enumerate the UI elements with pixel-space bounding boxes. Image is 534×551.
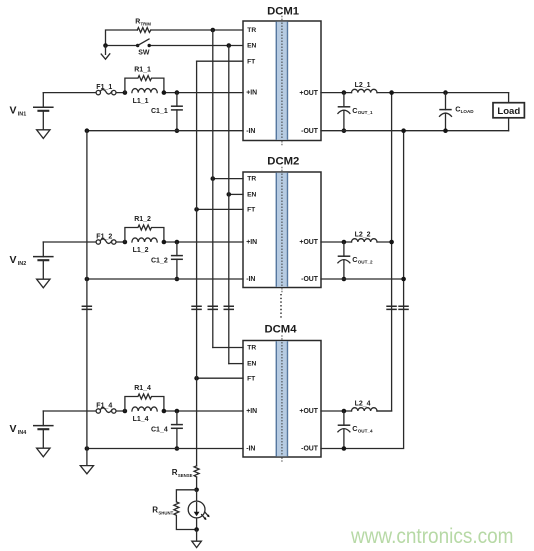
DCM1 isolation barrier bar	[276, 16, 288, 146]
node C1_1 bottom	[175, 128, 180, 133]
watermark	[350, 525, 513, 548]
svg-text:EN: EN	[247, 192, 256, 199]
capacitor C_OUT_4	[338, 411, 373, 449]
resistor R_TRIM	[135, 19, 151, 33]
svg-text:+IN: +IN	[246, 90, 257, 97]
svg-text:L2_2: L2_2	[355, 232, 371, 239]
node FT bus at DCM4	[194, 376, 199, 381]
DCM module DCM1 body	[243, 21, 321, 141]
inductor L2_4	[352, 401, 378, 411]
svg-text:L2_4: L2_4	[355, 401, 371, 408]
wire FT bus vertical	[196, 61, 198, 490]
svg-text:OUT_2: OUT_2	[358, 260, 373, 265]
node TR bus at DCM2	[211, 176, 216, 181]
wire +IN4 row	[43, 410, 243, 412]
svg-text:R: R	[152, 506, 158, 515]
svg-text:F1_1: F1_1	[96, 84, 112, 91]
node C_OUT_2 top	[342, 240, 347, 245]
node shunt bottom junction	[194, 527, 199, 532]
svg-text:IN2: IN2	[18, 261, 26, 267]
ground shunt return	[192, 530, 202, 548]
wire +IN2 row	[43, 241, 243, 243]
svg-text:DCM2: DCM2	[267, 155, 299, 167]
wire break marks left buses	[82, 306, 234, 309]
node C_LOAD bottom	[443, 128, 448, 133]
wire EN row DCM2	[229, 193, 243, 195]
node C_OUT_4 top	[342, 409, 347, 414]
svg-text:V: V	[10, 105, 17, 117]
svg-text:V: V	[10, 423, 17, 435]
node +IN4 right of filter	[162, 409, 167, 414]
svg-text:C1_1: C1_1	[151, 108, 168, 115]
node TR bus junction	[211, 28, 216, 33]
node +OUT bus at DCM2	[389, 240, 394, 245]
wire TR row DCM2	[213, 178, 243, 180]
resistor R_SENSE	[172, 466, 199, 478]
svg-text:+OUT: +OUT	[299, 239, 318, 246]
node EN bus junction	[227, 43, 232, 48]
fuse F1_1	[96, 84, 116, 95]
DCM module DCM4 body	[243, 341, 321, 458]
node R_SENSE bottom junction	[194, 488, 199, 493]
node C_LOAD top	[443, 90, 448, 95]
wire FT row DCM1	[197, 60, 243, 62]
node EN bus at DCM2	[227, 192, 232, 197]
capacitor C1_4	[151, 411, 183, 449]
ground V_IN1	[37, 130, 50, 139]
node +IN2 left of filter	[123, 240, 128, 245]
current meter symbol	[188, 501, 209, 520]
wire -OUT bus vertical	[321, 131, 404, 449]
svg-text:LOAD: LOAD	[461, 109, 475, 114]
wire +OUT2 row	[321, 241, 392, 243]
inductor L2_1	[352, 82, 378, 92]
svg-text:R1_2: R1_2	[134, 216, 151, 223]
ground V_IN2	[37, 279, 50, 288]
fuse F1_4	[96, 403, 116, 414]
svg-text:R: R	[172, 468, 178, 477]
load box	[493, 93, 524, 131]
svg-text:-IN: -IN	[246, 128, 255, 135]
resistor R1_4	[125, 385, 164, 411]
DCM4 title label	[264, 324, 297, 336]
ground -IN bus	[80, 466, 93, 474]
ground (trim/enable network)	[101, 46, 110, 60]
capacitor C1_2	[151, 242, 183, 279]
voltage source V_IN2	[10, 242, 54, 279]
DCM4 isolation barrier bar	[276, 335, 288, 462]
node -OUT bus top	[401, 128, 406, 133]
svg-text:-OUT: -OUT	[301, 276, 319, 283]
DCM1 pin labels	[246, 27, 319, 135]
node +IN1 left of filter	[123, 90, 128, 95]
svg-text:TRIM: TRIM	[141, 22, 152, 27]
svg-text:TR: TR	[247, 176, 256, 183]
node C1_2 top	[175, 240, 180, 245]
svg-text:L2_1: L2_1	[355, 82, 371, 89]
svg-text:-OUT: -OUT	[301, 446, 319, 453]
svg-text:V: V	[10, 254, 17, 266]
DCM2 pin labels	[246, 176, 319, 284]
node C1_4 top	[175, 409, 180, 414]
svg-text:EN: EN	[247, 43, 256, 50]
wire +OUT4 row	[321, 410, 392, 412]
svg-text:DCM4: DCM4	[264, 324, 297, 336]
resistor R1_2	[125, 216, 164, 242]
wire -OUT2 row	[321, 278, 404, 280]
DCM4 pin labels	[246, 345, 319, 453]
svg-text:R1_4: R1_4	[134, 385, 151, 392]
svg-text:R1_1: R1_1	[134, 67, 151, 74]
DCM module DCM2 body	[243, 172, 321, 288]
DCM2 title label	[267, 155, 299, 167]
wire FT row DCM2	[197, 208, 243, 210]
svg-text:-OUT: -OUT	[301, 128, 319, 135]
svg-text:FT: FT	[247, 58, 256, 65]
svg-text:FT: FT	[247, 207, 256, 214]
svg-text:+OUT: +OUT	[299, 408, 318, 415]
continuation ellipsis between DCM2 and DCM4	[280, 294, 282, 319]
node FT bus at DCM2	[194, 207, 199, 212]
svg-text:FT: FT	[247, 375, 256, 382]
wire -IN1 row	[87, 130, 243, 132]
node -OUT bus at DCM2	[401, 277, 406, 282]
wire -IN common bus vertical	[86, 131, 88, 466]
node +IN1 right of filter	[162, 90, 167, 95]
svg-text:C1_2: C1_2	[151, 257, 168, 264]
node C_OUT_1 bottom	[342, 128, 347, 133]
svg-text:TR: TR	[247, 345, 256, 352]
inductor L2_2	[352, 232, 378, 242]
wire EN bus vertical	[228, 46, 230, 364]
svg-text:www.cntronics.com: www.cntronics.com	[350, 525, 513, 548]
node +IN4 left of filter	[123, 409, 128, 414]
capacitor C1_1	[151, 93, 183, 131]
inductor L1_2	[132, 238, 157, 254]
wire shunt branch	[196, 490, 198, 530]
node C_OUT_2 bottom	[342, 277, 347, 282]
node C_OUT_4 bottom	[342, 446, 347, 451]
svg-text:+OUT: +OUT	[299, 90, 318, 97]
svg-text:SHUNT: SHUNT	[158, 510, 173, 515]
wire FT row DCM4	[197, 377, 243, 379]
node C_OUT_1 top	[342, 90, 347, 95]
node C1_2 bottom	[175, 277, 180, 282]
svg-text:L1_4: L1_4	[133, 416, 149, 423]
ground V_IN4	[37, 448, 50, 457]
svg-text:F1_2: F1_2	[96, 234, 112, 241]
capacitor C_OUT_1	[338, 93, 373, 131]
capacitor C_LOAD	[439, 93, 474, 131]
svg-text:OUT_4: OUT_4	[358, 429, 373, 434]
svg-text:L1_1: L1_1	[133, 98, 149, 105]
svg-text:+IN: +IN	[246, 239, 257, 246]
voltage source V_IN1	[10, 93, 54, 130]
wire TR row (R_TRIM net)	[106, 30, 244, 46]
node TR/EN corner junction	[103, 43, 108, 48]
wire +OUT1 row	[321, 92, 509, 94]
resistor R1_1	[125, 67, 164, 93]
node C1_1 top	[175, 90, 180, 95]
wire EN row DCM4	[229, 363, 243, 365]
voltage source V_IN4	[10, 411, 54, 448]
wire EN row (SW net)	[106, 45, 244, 47]
svg-text:EN: EN	[247, 361, 256, 368]
wire break marks right buses	[386, 306, 409, 309]
svg-text:IN4: IN4	[18, 430, 26, 436]
svg-text:SENSE: SENSE	[178, 473, 193, 478]
node C1_4 bottom	[175, 446, 180, 451]
DCM2 isolation barrier bar	[276, 167, 288, 293]
node -IN4 bus junction	[85, 446, 90, 451]
fuse F1_2	[96, 234, 116, 245]
svg-text:OUT_1: OUT_1	[358, 110, 373, 115]
wire +IN1 row	[43, 92, 243, 94]
svg-text:IN1: IN1	[18, 111, 26, 117]
svg-text:C1_4: C1_4	[151, 426, 168, 433]
svg-text:TR: TR	[247, 27, 256, 34]
svg-text:DCM1: DCM1	[267, 5, 299, 17]
svg-text:F1_4: F1_4	[96, 403, 112, 410]
resistor R_SHUNT	[152, 490, 196, 530]
wire TR bus vertical	[212, 30, 214, 348]
wire -IN4 row	[87, 448, 243, 450]
node +IN2 right of filter	[162, 240, 167, 245]
inductor L1_4	[132, 407, 157, 423]
wire TR row DCM4	[213, 347, 243, 349]
wire -OUT1 row	[321, 130, 509, 132]
svg-text:R: R	[135, 19, 140, 26]
svg-text:+IN: +IN	[246, 408, 257, 415]
wire -IN2 row	[87, 278, 243, 280]
node -IN1 bus junction	[85, 128, 90, 133]
DCM1 title label	[267, 5, 299, 17]
switch SW	[136, 39, 151, 57]
node +OUT bus top	[389, 90, 394, 95]
svg-text:Load: Load	[497, 106, 520, 117]
svg-text:L1_2: L1_2	[133, 247, 149, 254]
svg-text:-IN: -IN	[246, 276, 255, 283]
capacitor C_OUT_2	[338, 242, 373, 279]
svg-text:-IN: -IN	[246, 446, 255, 453]
inductor L1_1	[132, 89, 157, 105]
svg-text:SW: SW	[138, 50, 150, 57]
node -IN2 bus junction	[85, 277, 90, 282]
wire +OUT bus vertical	[377, 93, 392, 411]
